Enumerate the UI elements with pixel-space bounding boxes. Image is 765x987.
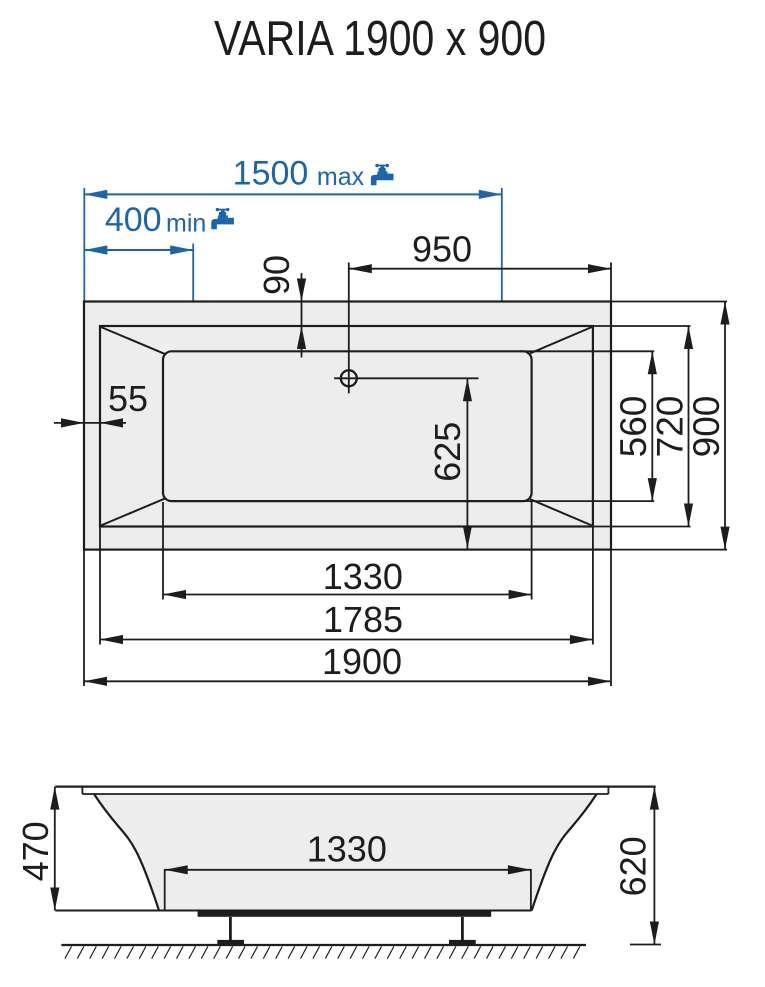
side view shell fill (94, 794, 597, 911)
svg-text:max: max (317, 163, 365, 191)
svg-text:VARIA 1900 x 900: VARIA 1900 x 900 (214, 12, 546, 66)
side shell right curve (532, 794, 597, 911)
faucet icon 1 (371, 164, 394, 185)
corner diagonal BL (101, 499, 165, 526)
tub floor rounded rect (163, 351, 532, 501)
dim 90 (297, 273, 306, 357)
dim 1500 max (blue) (84, 188, 502, 301)
dim 1785 (100, 527, 593, 645)
svg-text:1500: 1500 (233, 154, 309, 192)
dim 620 (630, 787, 661, 945)
dim 400 min (blue) (84, 244, 193, 302)
svg-text:1900: 1900 (322, 641, 402, 682)
ground hatching (65, 946, 580, 958)
svg-text:400: 400 (105, 201, 162, 239)
dim 900 (611, 302, 730, 550)
dim 55 (54, 418, 126, 427)
svg-text:55: 55 (108, 378, 148, 419)
corner diagonal TR (530, 327, 592, 353)
svg-text:1330: 1330 (323, 556, 403, 597)
dim 1330 (side) (165, 865, 531, 910)
svg-text:900: 900 (686, 396, 727, 458)
corner diagonal BR (530, 499, 592, 525)
side rim underside (82, 793, 608, 795)
support bar (198, 911, 492, 917)
dim 950 (349, 263, 611, 302)
dim 1900 (84, 550, 611, 686)
side bottom line with left extension (55, 910, 531, 912)
side rim top line (55, 785, 655, 787)
svg-text:560: 560 (613, 396, 654, 458)
dim 720 (593, 326, 693, 527)
svg-text:720: 720 (649, 396, 690, 458)
svg-text:min: min (166, 210, 206, 238)
drain crosshair vertical / 950 extension (348, 263, 350, 394)
svg-text:1330: 1330 (307, 829, 387, 870)
svg-text:90: 90 (256, 255, 297, 295)
corner diagonal TL (101, 327, 165, 354)
tub rim rect (100, 326, 593, 527)
dim 560 (520, 351, 657, 501)
svg-text:1785: 1785 (323, 599, 403, 640)
svg-text:470: 470 (15, 821, 56, 881)
svg-text:620: 620 (613, 836, 654, 896)
side shell left curve (94, 794, 159, 911)
left foot (229, 917, 232, 940)
dim 625 (463, 378, 472, 548)
side rim left cap (81, 787, 83, 794)
drain crosshair horizontal (334, 377, 478, 379)
dim 470 (50, 787, 59, 911)
ground line (61, 944, 586, 946)
right foot (461, 917, 464, 940)
tub deck outer rect (84, 302, 611, 550)
svg-text:625: 625 (427, 422, 468, 482)
drain circle (341, 370, 357, 386)
dim 1330 (top view) (163, 502, 532, 600)
faucet icon 2 (211, 208, 234, 229)
svg-text:950: 950 (412, 229, 472, 270)
side rim right cap (607, 787, 609, 794)
